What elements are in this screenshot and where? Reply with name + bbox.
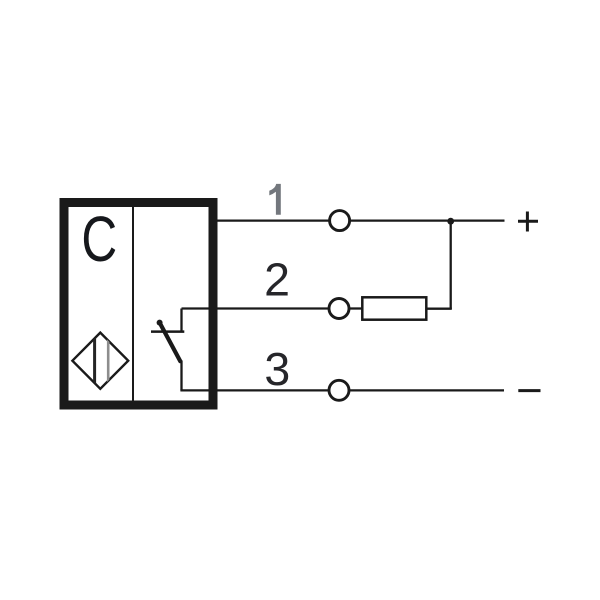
terminal circle 2 xyxy=(329,299,349,319)
wire pin1 terminal to plus rail xyxy=(349,219,505,221)
switch blade xyxy=(160,323,181,361)
wire pin2 into box xyxy=(182,307,330,309)
capacitor plate right xyxy=(107,333,110,389)
wire pin3 terminal to minus rail xyxy=(348,389,504,391)
plus terminal xyxy=(518,212,538,232)
svg-text:3: 3 xyxy=(264,343,290,395)
junction node xyxy=(447,218,454,225)
wire resistor to junction drop xyxy=(426,308,452,310)
switch lower lead xyxy=(180,361,182,391)
capacitive sensor diamond xyxy=(72,333,128,389)
terminal circle 3 xyxy=(329,380,349,400)
svg-text:C: C xyxy=(81,204,117,276)
capacitor plate left xyxy=(93,333,96,389)
wire junction down to resistor level xyxy=(450,221,452,309)
box divider xyxy=(132,207,134,401)
switch upper lead xyxy=(180,309,182,332)
minus terminal xyxy=(518,389,540,392)
terminal circle 1 xyxy=(330,211,350,231)
svg-text:2: 2 xyxy=(264,254,290,306)
switch blade pivot dot xyxy=(157,320,163,326)
sensor box outline xyxy=(64,203,213,406)
wire pin1 from box to terminal xyxy=(211,219,330,221)
pin label 1 xyxy=(269,184,281,215)
switch contact bar xyxy=(151,330,184,333)
wire terminal2 to resistor xyxy=(348,307,362,309)
wire pin3 from switch to terminal xyxy=(180,389,329,391)
resistor xyxy=(362,297,426,319)
